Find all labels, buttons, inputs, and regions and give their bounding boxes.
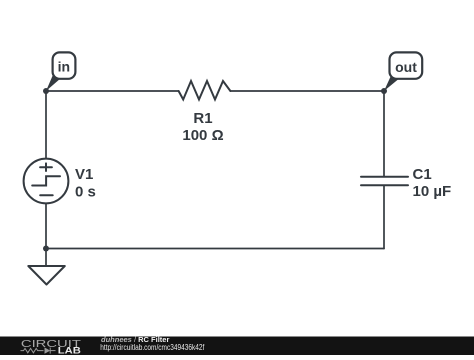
svg-text:in: in: [58, 58, 70, 74]
svg-text:C1: C1: [413, 166, 432, 183]
svg-text:http://circuitlab.com/cmc34943: http://circuitlab.com/cmc349436k42f: [100, 343, 205, 352]
svg-text:out: out: [395, 59, 417, 75]
svg-text:100 Ω: 100 Ω: [182, 127, 223, 144]
svg-text:0 s: 0 s: [75, 184, 96, 201]
svg-text:V1: V1: [75, 166, 93, 183]
svg-text:LAB: LAB: [58, 346, 81, 355]
svg-text:R1: R1: [193, 110, 212, 127]
svg-text:10 µF: 10 µF: [413, 183, 452, 200]
